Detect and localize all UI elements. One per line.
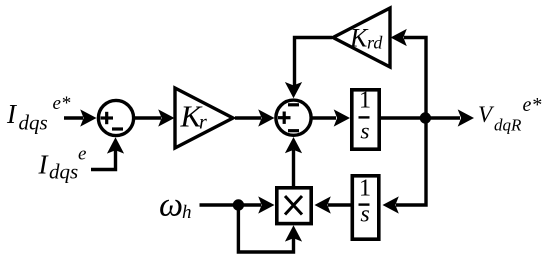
- svg-text:rd: rd: [367, 33, 383, 53]
- svg-text:K: K: [349, 24, 369, 53]
- svg-text:s: s: [360, 202, 369, 228]
- wire Krd to S2 top: [285, 38, 332, 99]
- svg-text:dqs: dqs: [49, 160, 78, 184]
- omega junction dot: [233, 199, 244, 210]
- wire Kr to S2: [235, 109, 275, 126]
- wire omega_h to multiplier: [200, 196, 275, 213]
- output node dot: [420, 112, 431, 123]
- svg-text:1: 1: [359, 87, 371, 114]
- integrator block 1/s (top): [352, 87, 379, 150]
- summing junction S2: [276, 100, 311, 135]
- svg-text:dqR: dqR: [494, 116, 522, 135]
- summing junction S1: [98, 100, 133, 135]
- wire S2 to integrator 1: [311, 109, 350, 126]
- wire integrator 2 to multiplier: [315, 196, 351, 213]
- input label Idqs e*: [6, 93, 71, 135]
- svg-text:1: 1: [359, 175, 371, 202]
- svg-text:h: h: [182, 202, 192, 223]
- label omega_h: [159, 187, 192, 224]
- wire omega loop to multiplier bottom: [238, 205, 302, 252]
- wire integrator 1 to output node: [381, 109, 474, 126]
- svg-text:ω: ω: [159, 187, 183, 224]
- wire node to integrator 2: [383, 118, 427, 214]
- svg-text:e: e: [78, 144, 86, 165]
- svg-text:s: s: [360, 119, 369, 145]
- svg-text:r: r: [199, 112, 207, 134]
- feedback label Idqs e: [38, 144, 87, 184]
- feedback wire node to Krd: [391, 29, 427, 118]
- integrator block 1/s (bottom): [352, 175, 379, 240]
- wire S1 to Kr: [134, 109, 175, 126]
- svg-text:e*: e*: [53, 93, 71, 114]
- multiplier block X: [277, 188, 311, 224]
- svg-text:e*: e*: [523, 94, 542, 116]
- wire multiplier to S2 bottom: [285, 137, 302, 186]
- output label VdqR e*: [478, 94, 541, 135]
- wire Idqs e to S1 bottom: [91, 137, 124, 169]
- svg-text:dqs: dqs: [19, 111, 48, 135]
- wire input to summing junction S1: [64, 109, 97, 126]
- gain block Kr: [175, 88, 233, 148]
- gain block Krd: [333, 8, 390, 67]
